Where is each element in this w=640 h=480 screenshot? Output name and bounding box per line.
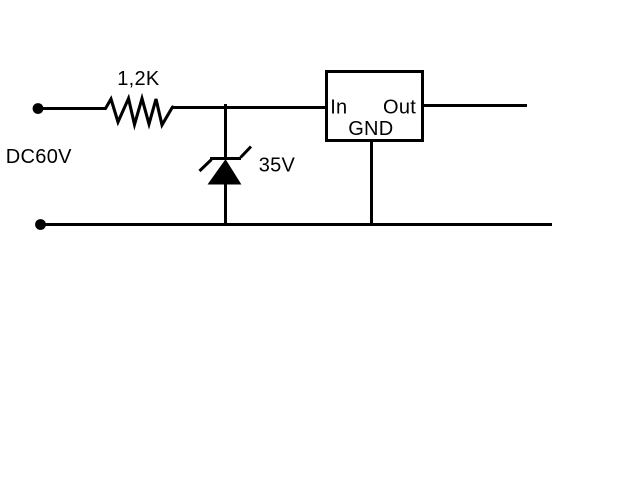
svg-text:DC60V: DC60V [6,146,72,168]
node: input negative terminal [35,219,46,230]
wire: regulator output [424,104,527,107]
wire: bottom ground rail [41,223,553,226]
regulator U1 box [327,72,423,141]
zener cathode right hook [241,147,252,158]
svg-text:Out: Out [383,97,416,119]
wire: junction down to zener cathode [224,104,227,159]
zener diode D1 anode triangle [209,160,241,184]
wire: zener anode to ground rail [224,183,227,226]
wire: resistor to regulator input (junction node at x=225.5) [173,106,326,109]
wire: terminal to resistor [38,107,106,110]
svg-text:In: In [330,97,347,119]
svg-text:35V: 35V [259,155,296,177]
resistor R 1,2K zigzag [106,99,173,126]
svg-text:1,2K: 1,2K [117,68,160,90]
zener cathode left hook [200,160,212,172]
wire: regulator GND to ground rail [370,142,373,226]
svg-text:GND: GND [348,118,393,140]
node: input positive terminal [33,103,44,114]
zener diode D1 cathode bar [210,157,241,160]
